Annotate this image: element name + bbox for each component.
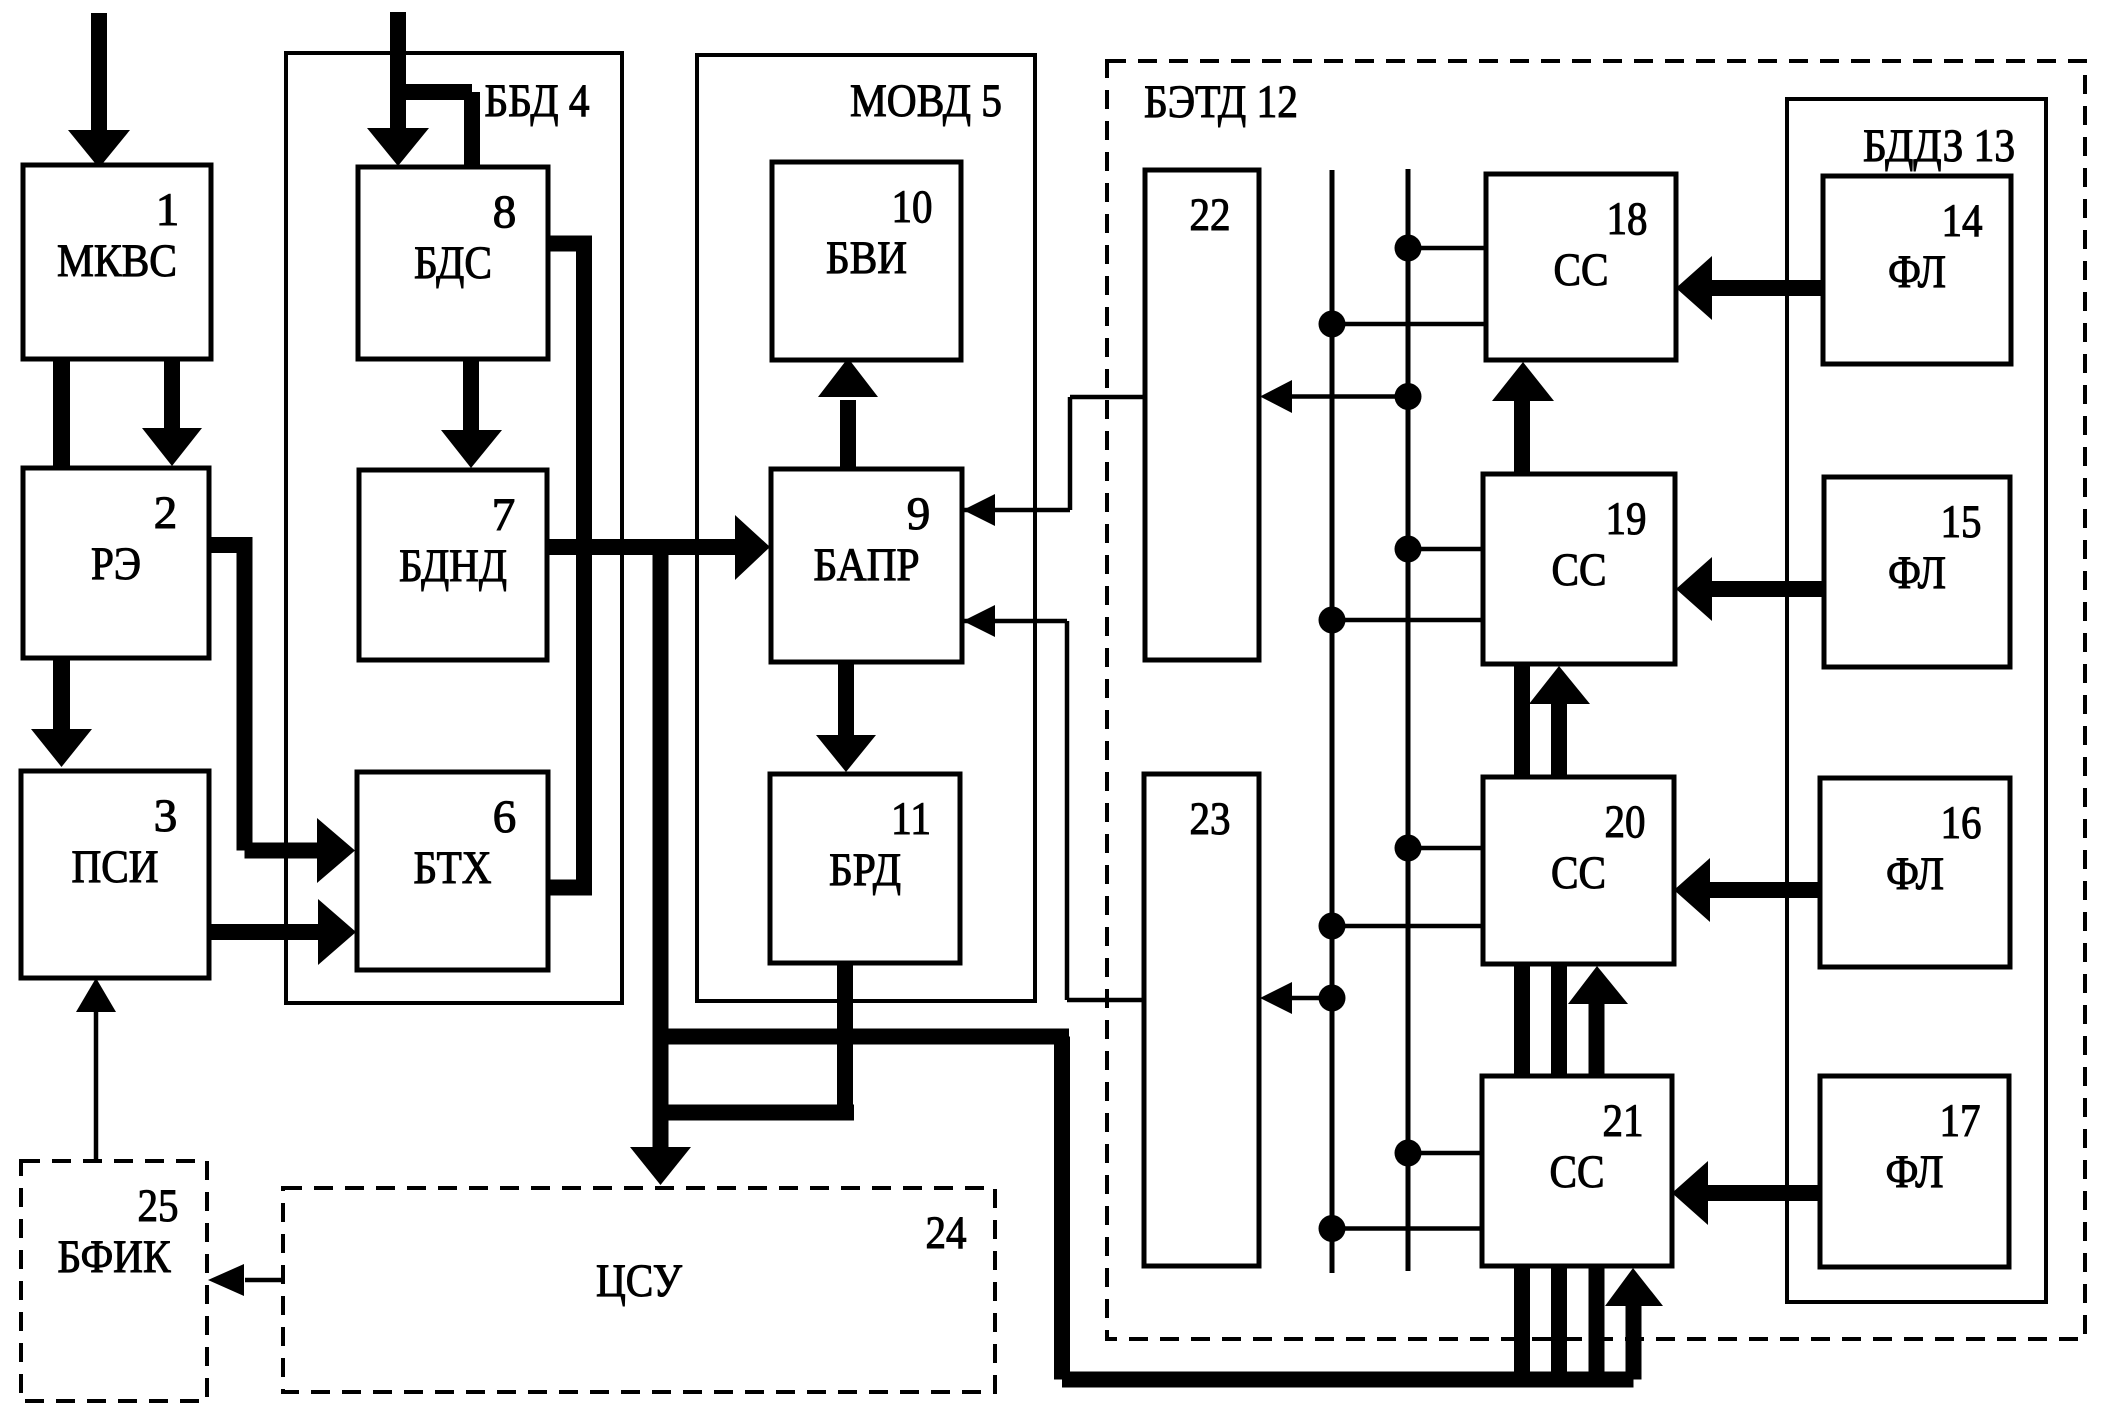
svg-text:24: 24	[926, 1207, 967, 1259]
svg-text:2: 2	[154, 487, 178, 539]
svg-text:ФЛ: ФЛ	[1886, 848, 1944, 900]
svg-text:21: 21	[1603, 1095, 1644, 1147]
svg-text:3: 3	[154, 790, 178, 842]
svg-text:22: 22	[1190, 189, 1231, 241]
svg-text:ЦСУ: ЦСУ	[596, 1255, 683, 1307]
svg-text:11: 11	[891, 793, 931, 845]
svg-text:СС: СС	[1551, 847, 1606, 899]
svg-text:ББД 4: ББД 4	[485, 75, 590, 127]
svg-text:16: 16	[1941, 797, 1982, 849]
svg-text:9: 9	[907, 488, 931, 540]
svg-text:8: 8	[493, 186, 517, 238]
svg-text:ФЛ: ФЛ	[1886, 1146, 1944, 1198]
svg-text:СС: СС	[1552, 544, 1607, 596]
svg-text:17: 17	[1940, 1095, 1981, 1147]
svg-text:25: 25	[138, 1180, 179, 1232]
svg-text:БТХ: БТХ	[414, 842, 492, 894]
svg-text:23: 23	[1190, 793, 1231, 845]
svg-text:7: 7	[492, 489, 516, 541]
svg-text:БЭТД 12: БЭТД 12	[1144, 76, 1298, 128]
svg-text:БДНД: БДНД	[399, 540, 507, 592]
svg-text:БДС: БДС	[414, 237, 492, 289]
svg-text:МКВС: МКВС	[57, 235, 177, 287]
svg-text:14: 14	[1942, 195, 1983, 247]
svg-text:15: 15	[1941, 496, 1982, 548]
svg-text:БДДЗ 13: БДДЗ 13	[1863, 120, 2015, 172]
svg-text:19: 19	[1606, 493, 1647, 545]
svg-text:БРД: БРД	[829, 844, 901, 896]
svg-text:ПСИ: ПСИ	[72, 841, 159, 893]
svg-text:СС: СС	[1550, 1146, 1605, 1198]
svg-text:1: 1	[156, 184, 180, 236]
svg-text:БФИК: БФИК	[58, 1231, 172, 1283]
svg-text:БАПР: БАПР	[814, 539, 920, 591]
svg-text:БВИ: БВИ	[826, 232, 907, 284]
svg-text:20: 20	[1605, 796, 1646, 848]
svg-text:ФЛ: ФЛ	[1888, 547, 1946, 599]
svg-text:10: 10	[892, 181, 933, 233]
svg-text:СС: СС	[1554, 244, 1609, 296]
svg-text:6: 6	[493, 791, 517, 843]
svg-text:МОВД 5: МОВД 5	[850, 75, 1002, 127]
svg-text:ФЛ: ФЛ	[1888, 246, 1946, 298]
svg-text:РЭ: РЭ	[91, 538, 141, 590]
svg-text:18: 18	[1607, 193, 1648, 245]
